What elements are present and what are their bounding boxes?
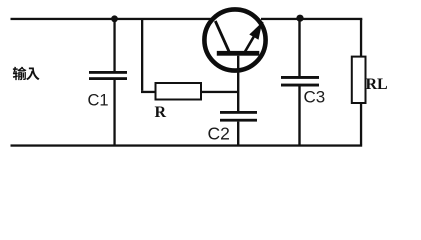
wire top rail right segment [261,18,362,20]
node junction dot left [111,15,118,22]
wire bottom rail [11,144,363,146]
capacitor C3 [281,76,319,87]
node junction dot right [296,15,303,22]
wire C1 upper lead [113,19,115,71]
wire R left lead [141,91,156,93]
transistor Q1 circle [204,9,265,70]
transistor Q1 emitter lead with arrow [245,22,263,53]
wire RL lower lead [360,103,362,145]
wire RL upper lead [360,19,362,57]
label input 输入 (vector glyphs) [13,67,40,81]
wire top rail [11,18,212,20]
wire C2 lower lead [237,122,239,145]
transistor Q1 base bar [217,51,259,56]
wire Q1 base lead down [237,56,239,111]
svg-text:C1: C1 [88,92,109,110]
svg-text:C3: C3 [304,88,326,107]
svg-text:R: R [155,104,167,121]
wire C1 lower lead [113,80,115,145]
wire R right lead [201,91,238,93]
capacitor C2 [220,111,257,122]
resistor R [156,83,202,100]
svg-text:C2: C2 [208,123,230,143]
svg-text:RL: RL [366,76,388,93]
transistor Q1 collector lead [215,21,229,52]
capacitor C1 [89,71,127,80]
wire C3 lower lead [298,87,300,145]
resistor RL [352,57,366,103]
wire R upper lead [141,19,143,91]
wire C3 upper lead [298,19,300,76]
